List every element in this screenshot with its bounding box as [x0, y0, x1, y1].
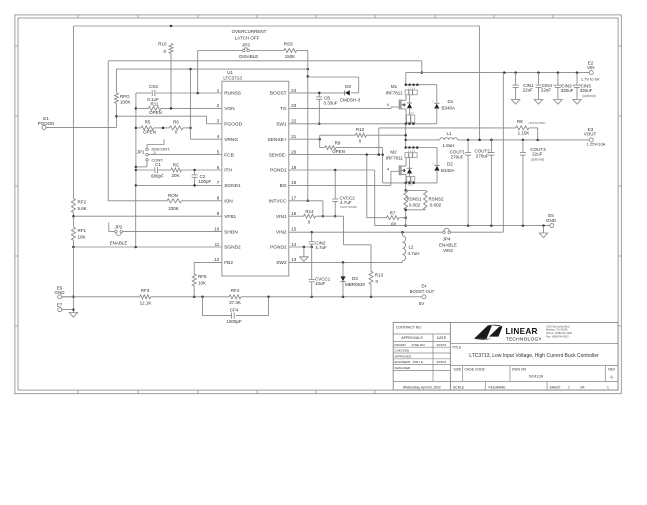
ground symbol output [543, 226, 545, 233]
resistor RF1 [71, 227, 75, 240]
wire BG (pin 18) to M2 gate [289, 184, 391, 186]
capacitor COUT1 [467, 140, 469, 152]
svg-text:GND: GND [546, 218, 557, 223]
svg-text:100K: 100K [120, 100, 131, 105]
svg-text:ION: ION [224, 199, 233, 205]
resistor RF5 [192, 274, 196, 286]
svg-text:1 2 3: 1 2 3 [407, 185, 413, 187]
svg-text:1 2 3: 1 2 3 [408, 113, 414, 115]
svg-text:CMDSH-3: CMDSH-3 [340, 98, 361, 103]
svg-text:M1: M1 [391, 84, 398, 89]
svg-text:330K: 330K [168, 206, 179, 211]
capacitor C2 [194, 170, 196, 174]
capacitor CSS [151, 90, 153, 96]
wire PGND rail [375, 225, 550, 227]
svg-text:0.002: 0.002 [409, 203, 421, 208]
svg-text:OPEN: OPEN [149, 110, 162, 115]
svg-text:17: 17 [291, 196, 297, 201]
svg-text:SIZE: SIZE [454, 367, 462, 371]
wire SENSE- filter drop [366, 155, 368, 218]
svg-text:37.4K: 37.4K [229, 300, 241, 305]
wire JP3 to RUNSS [197, 51, 199, 94]
svg-text:3/15/01: 3/15/01 [436, 343, 446, 347]
svg-text:1630 McCarthy Blvd.: 1630 McCarthy Blvd. [546, 324, 570, 328]
capacitor CIN1 [515, 73, 517, 85]
wire INTVCC pull-up rail [116, 68, 307, 70]
svg-text:RF4: RF4 [231, 288, 240, 293]
svg-text:E4: E4 [421, 283, 427, 288]
resistor RSNS1 [405, 183, 407, 191]
resistor RSS [284, 49, 297, 53]
svg-text:10: 10 [214, 226, 220, 231]
svg-text:GND: GND [55, 290, 66, 295]
svg-text:ENABLE: ENABLE [110, 241, 128, 246]
svg-text:1.7V to 6V: 1.7V to 6V [581, 77, 600, 82]
wire R9 to SENSE- / RSNS top [382, 148, 384, 183]
svg-text:DC412A: DC412A [529, 374, 544, 378]
svg-text:270uF: 270uF [451, 155, 464, 160]
wire 5V rail to E4 [241, 296, 422, 298]
svg-text:RUNSS: RUNSS [224, 91, 241, 97]
svg-text:SHEET: SHEET [550, 386, 561, 390]
svg-text:0.002: 0.002 [430, 203, 442, 208]
diode D1 B340A [436, 85, 438, 104]
resistor R5 [136, 127, 141, 129]
wire SGND vertical V1 [135, 93, 137, 185]
jumper JP2 ENABLE [115, 230, 118, 233]
capacitor CIN5 [576, 73, 578, 85]
svg-text:SGND2: SGND2 [224, 245, 241, 251]
svg-text:R14: R14 [305, 209, 314, 214]
svg-text:REV: REV [608, 367, 616, 371]
svg-text:OPEN: OPEN [143, 130, 156, 135]
svg-text:10K: 10K [198, 281, 206, 286]
resistor RF3 [140, 295, 151, 299]
svg-text:DISABLE: DISABLE [239, 54, 258, 59]
svg-text:11: 11 [215, 242, 220, 247]
svg-text:D1: D1 [448, 99, 454, 104]
svg-text:15: 15 [291, 226, 297, 231]
svg-text:Milpitas, CA 95035: Milpitas, CA 95035 [546, 328, 568, 332]
svg-text:R9: R9 [335, 141, 341, 146]
resistor R13 [369, 271, 373, 284]
svg-text:D3: D3 [352, 276, 358, 281]
diode D3 MBR0520 [342, 262, 344, 276]
wire SGND2 (pin 11) [73, 246, 222, 248]
svg-text:23: 23 [291, 103, 297, 108]
svg-text:FILENAME: FILENAME [489, 386, 507, 390]
svg-text:0.33uF: 0.33uF [324, 100, 338, 105]
svg-text:SCALE: SCALE [453, 386, 465, 390]
svg-text:VOUT: VOUT [584, 132, 597, 137]
svg-text:18: 18 [291, 180, 297, 185]
jumper JP4 ENABLE VIN2 [443, 231, 446, 234]
svg-text:RSS: RSS [284, 42, 293, 47]
svg-text:CHECKED: CHECKED [395, 349, 411, 353]
svg-text:JP2: JP2 [115, 225, 123, 230]
wire FB2 (pin 12) [194, 261, 222, 263]
capacitor CB [318, 93, 320, 97]
wire RUNSS (pin 1) with CSS [156, 92, 222, 94]
svg-text:BOOST OUT: BOOST OUT [410, 289, 435, 294]
svg-text:TITLE: TITLE [452, 346, 462, 350]
svg-text:R10: R10 [158, 42, 167, 47]
wire VIN1 to R13 [343, 216, 345, 245]
svg-text:A: A [610, 374, 613, 379]
svg-text:PGOOD: PGOOD [38, 121, 56, 126]
wire PGND1 (pin 19) [289, 169, 375, 171]
svg-text:COUT1: COUT1 [450, 149, 466, 154]
inductor L2 [402, 232, 404, 236]
wire JP1 pin2 to FCB [149, 154, 222, 156]
wire VIN2 (pin 15) with JP4 [289, 231, 443, 233]
svg-text:R13: R13 [375, 273, 384, 278]
svg-text:FCB: FCB [224, 152, 234, 158]
svg-text:VRNG: VRNG [224, 137, 238, 143]
svg-text:L2: L2 [409, 244, 415, 249]
wire SGND1 (pin 7) [136, 184, 222, 186]
svg-text:20K: 20K [171, 173, 179, 178]
svg-text:R11: R11 [151, 101, 159, 106]
wire VOUT feedback top rail [73, 25, 479, 27]
svg-text:SENSE+: SENSE+ [268, 137, 287, 143]
resistor RSNS2 [424, 190, 428, 209]
svg-text:JP4: JP4 [443, 236, 451, 241]
wire SGND1 to SGND2 tie [135, 185, 137, 247]
svg-text:4.7uH: 4.7uH [408, 251, 420, 256]
svg-text:M2: M2 [390, 150, 397, 155]
svg-text:VON: VON [224, 106, 235, 112]
svg-text:ENGINEER: ENGINEER [395, 360, 412, 364]
svg-text:RF5: RF5 [198, 274, 207, 279]
svg-text:1.25V/10A: 1.25V/10A [587, 141, 606, 146]
svg-text:TECHNOLOGY: TECHNOLOGY [506, 336, 543, 342]
svg-text:APPROVED: APPROVED [395, 354, 413, 358]
wire SW2 (pin 13) [289, 261, 403, 263]
resistor RF2 [71, 199, 75, 213]
wire PGND2 (pin 14) [289, 246, 312, 248]
wire SW1 (pin 22) [289, 123, 437, 125]
wire JP1 DISCONT to VRNG [146, 145, 148, 148]
svg-text:Wednesday, April 03, 2002: Wednesday, April 03, 2002 [403, 386, 441, 390]
svg-text:5.6K: 5.6K [78, 206, 87, 211]
diode D8 CMDSH-3 [344, 90, 346, 95]
title block [393, 322, 618, 390]
svg-text:MBR0520: MBR0520 [345, 282, 366, 287]
svg-text:10K: 10K [78, 234, 86, 239]
svg-text:150K: 150K [285, 54, 296, 59]
resistor R7 [367, 217, 387, 219]
svg-text:CF4: CF4 [230, 307, 239, 312]
svg-text:1: 1 [607, 386, 609, 390]
svg-text:12.1K: 12.1K [140, 301, 152, 306]
wire SENSE- (pin 20) [289, 154, 383, 156]
svg-text:680pF: 680pF [151, 174, 164, 179]
svg-text:R6: R6 [173, 120, 179, 125]
svg-text:D8: D8 [345, 84, 351, 89]
svg-text:APPROVALS: APPROVALS [401, 336, 423, 340]
svg-text:1: 1 [568, 386, 570, 390]
svg-text:SW1: SW1 [276, 122, 287, 128]
IC U1 LTC3713 [222, 81, 289, 276]
svg-text:22uF: 22uF [523, 87, 534, 92]
diode D2 B340A [436, 148, 438, 166]
svg-text:21: 21 [291, 134, 297, 139]
svg-text:LATCH OFF: LATCH OFF [235, 36, 260, 41]
svg-text:PGND1: PGND1 [270, 168, 287, 174]
svg-text:R12: R12 [356, 127, 365, 132]
svg-text:VIN1: VIN1 [276, 214, 287, 220]
resistor R12 [319, 135, 321, 139]
svg-text:RF2: RF2 [78, 200, 87, 205]
capacitor C1 [136, 169, 154, 171]
svg-text:OVERCURRENT: OVERCURRENT [232, 29, 267, 34]
svg-text:DRAWN: DRAWN [395, 343, 406, 347]
wire JP1 CONT to SGND [146, 161, 148, 167]
svg-text:22uF: 22uF [532, 151, 543, 156]
svg-text:19: 19 [291, 165, 297, 170]
wire TG (pin 23) to M1 gate [289, 107, 391, 109]
ground symbol bottom left [69, 313, 77, 318]
svg-text:14: 14 [291, 242, 297, 247]
svg-text:SW2: SW2 [276, 260, 287, 266]
border inner frame [18, 18, 618, 390]
svg-text:RF1: RF1 [78, 228, 87, 233]
wire SENSE+ (pin 21) [289, 138, 320, 140]
svg-text:FB2: FB2 [224, 260, 233, 266]
svg-text:1.15K: 1.15K [518, 130, 530, 135]
wire M2 source row [383, 182, 437, 184]
ground symbol CIN5 [573, 100, 581, 105]
svg-text:20: 20 [291, 149, 297, 154]
svg-text:DATE: DATE [437, 336, 447, 340]
svg-text:OF: OF [580, 386, 585, 390]
svg-text:JOEY E.: JOEY E. [412, 360, 424, 364]
svg-text:LTC3713, Low Input Voltage, Hi: LTC3713, Low Input Voltage, High Current… [469, 353, 599, 359]
svg-text:22: 22 [291, 119, 297, 124]
wire INTVCC (pin 17) [289, 200, 323, 202]
svg-text:SHDN: SHDN [224, 229, 238, 235]
resistor R8 [379, 127, 516, 129]
svg-text:DESIGNER: DESIGNER [395, 366, 412, 370]
svg-text:330uF: 330uF [580, 88, 593, 93]
svg-text:ITH: ITH [224, 168, 232, 174]
resistor R6 [154, 127, 170, 129]
svg-text:IRF7811: IRF7811 [386, 156, 403, 161]
svg-text:13: 13 [291, 257, 297, 262]
ground symbol PGND2 [303, 247, 305, 257]
svg-text:RON: RON [168, 193, 178, 198]
jumper JP1 [146, 148, 149, 151]
capacitor CIN2 [311, 232, 313, 241]
svg-text:JP1: JP1 [137, 150, 145, 155]
svg-text:B340A: B340A [442, 106, 456, 111]
junction top rail / R10 [170, 25, 173, 28]
svg-text:BG: BG [280, 183, 287, 189]
resistor RON [108, 200, 167, 202]
resistor RC [171, 168, 182, 172]
wire R6 to INTVCC rail / VRNG [190, 69, 192, 139]
resistor R11 [136, 107, 148, 109]
capacitor COUT2 [490, 140, 492, 152]
svg-text:INTVCC: INTVCC [269, 199, 287, 205]
svg-text:Fax: (408)434-0507: Fax: (408)434-0507 [546, 335, 569, 339]
svg-text:24: 24 [291, 88, 297, 93]
svg-text:1.8uH: 1.8uH [442, 143, 454, 148]
wire VIN rail [406, 72, 590, 74]
border outer frame [15, 15, 621, 394]
svg-text:CAGE CODE: CAGE CODE [465, 367, 486, 371]
svg-text:LTC3713: LTC3713 [223, 75, 242, 80]
svg-text:UNSTUFFED: UNSTUFFED [340, 205, 357, 209]
svg-text:IRF7811: IRF7811 [386, 91, 403, 96]
wire RON to VIN [107, 61, 109, 201]
svg-text:4.7uF: 4.7uF [315, 245, 327, 250]
svg-text:SGND1: SGND1 [224, 183, 241, 189]
capacitor CIN4 [538, 73, 540, 85]
capacitor CVCC1 [311, 247, 313, 279]
svg-text:TG: TG [280, 106, 287, 112]
wire ground chain to E6/E7 [72, 247, 74, 313]
svg-text:CONTRACT NO.: CONTRACT NO. [396, 326, 422, 330]
resistor RPG [114, 93, 118, 104]
svg-text:R7: R7 [390, 211, 396, 216]
svg-text:RSNS2: RSNS2 [428, 196, 444, 201]
svg-text:VIN2: VIN2 [443, 248, 454, 253]
svg-text:BOOST: BOOST [270, 91, 287, 97]
svg-text:330uF: 330uF [561, 88, 574, 93]
svg-text:UNSTUFFED: UNSTUFFED [529, 121, 546, 125]
svg-text:DWG NO: DWG NO [512, 367, 527, 371]
svg-text:VFB1: VFB1 [224, 214, 236, 220]
svg-text:16: 16 [291, 211, 297, 216]
svg-text:RPG: RPG [120, 94, 130, 99]
wire node A to RF4 [151, 296, 229, 298]
capacitor COUT3 [522, 140, 524, 152]
resistor R10 [170, 54, 172, 109]
wire E1 to PGOOD pin 3 [46, 126, 116, 128]
svg-text:PGND2: PGND2 [270, 245, 287, 251]
wire VOUT rail [458, 139, 590, 141]
svg-text:5V: 5V [419, 301, 425, 306]
svg-text:100pF: 100pF [199, 179, 212, 184]
svg-text:C1: C1 [155, 162, 161, 167]
svg-text:B340A: B340A [441, 168, 455, 173]
svg-text:VIN2: VIN2 [276, 229, 287, 235]
Linear Technology logo [474, 325, 492, 339]
svg-text:Phone: (408)432-1900: Phone: (408)432-1900 [546, 331, 573, 335]
svg-text:L1: L1 [446, 131, 452, 136]
svg-text:VIN: VIN [587, 65, 595, 70]
resistor R9 [319, 139, 321, 147]
svg-text:LINEAR: LINEAR [506, 327, 538, 336]
resistor RF4 [229, 295, 241, 299]
svg-text:E7: E7 [57, 302, 63, 307]
svg-text:SENSE-: SENSE- [269, 152, 287, 158]
wire 5V rail (bottom) [62, 296, 140, 298]
svg-text:270uF: 270uF [476, 153, 489, 158]
svg-text:OPEN: OPEN [332, 149, 345, 154]
svg-text:1000pF: 1000pF [226, 319, 242, 324]
ground symbol CIN3 [554, 100, 562, 105]
svg-text:ENABLE: ENABLE [439, 242, 457, 247]
capacitor CIN3 [557, 73, 559, 85]
inductor L1 [406, 139, 440, 141]
svg-text:(optional): (optional) [531, 157, 544, 161]
ground symbol CIN4 [534, 100, 542, 105]
svg-text:JUNE WU: JUNE WU [411, 343, 425, 347]
wire VFB1 (pin 9) [73, 215, 222, 217]
svg-text:R8: R8 [517, 119, 523, 124]
wire BOOST (pin 24) [289, 92, 344, 94]
svg-text:JP3: JP3 [242, 42, 250, 47]
ground symbol CIN1 [511, 100, 519, 105]
svg-text:(optional): (optional) [582, 94, 595, 98]
wire INTVCC vertical [307, 51, 309, 201]
svg-text:22uF: 22uF [541, 87, 552, 92]
svg-text:12: 12 [214, 257, 220, 262]
capacitor CF4 [202, 297, 204, 316]
svg-text:PGOOD: PGOOD [224, 122, 242, 128]
svg-text:CSS: CSS [149, 84, 158, 89]
svg-text:RSNS1: RSNS1 [406, 196, 422, 201]
svg-text:10uF: 10uF [315, 281, 326, 286]
border zone ticks [15, 15, 621, 394]
capacitor CVCC2 [334, 170, 336, 199]
svg-text:R5: R5 [145, 120, 151, 125]
svg-text:RC: RC [173, 163, 180, 168]
svg-text:RF3: RF3 [141, 288, 150, 293]
svg-text:3/15/01: 3/15/01 [436, 360, 446, 364]
svg-text:D2: D2 [447, 162, 453, 167]
resistor R14 [289, 215, 304, 217]
